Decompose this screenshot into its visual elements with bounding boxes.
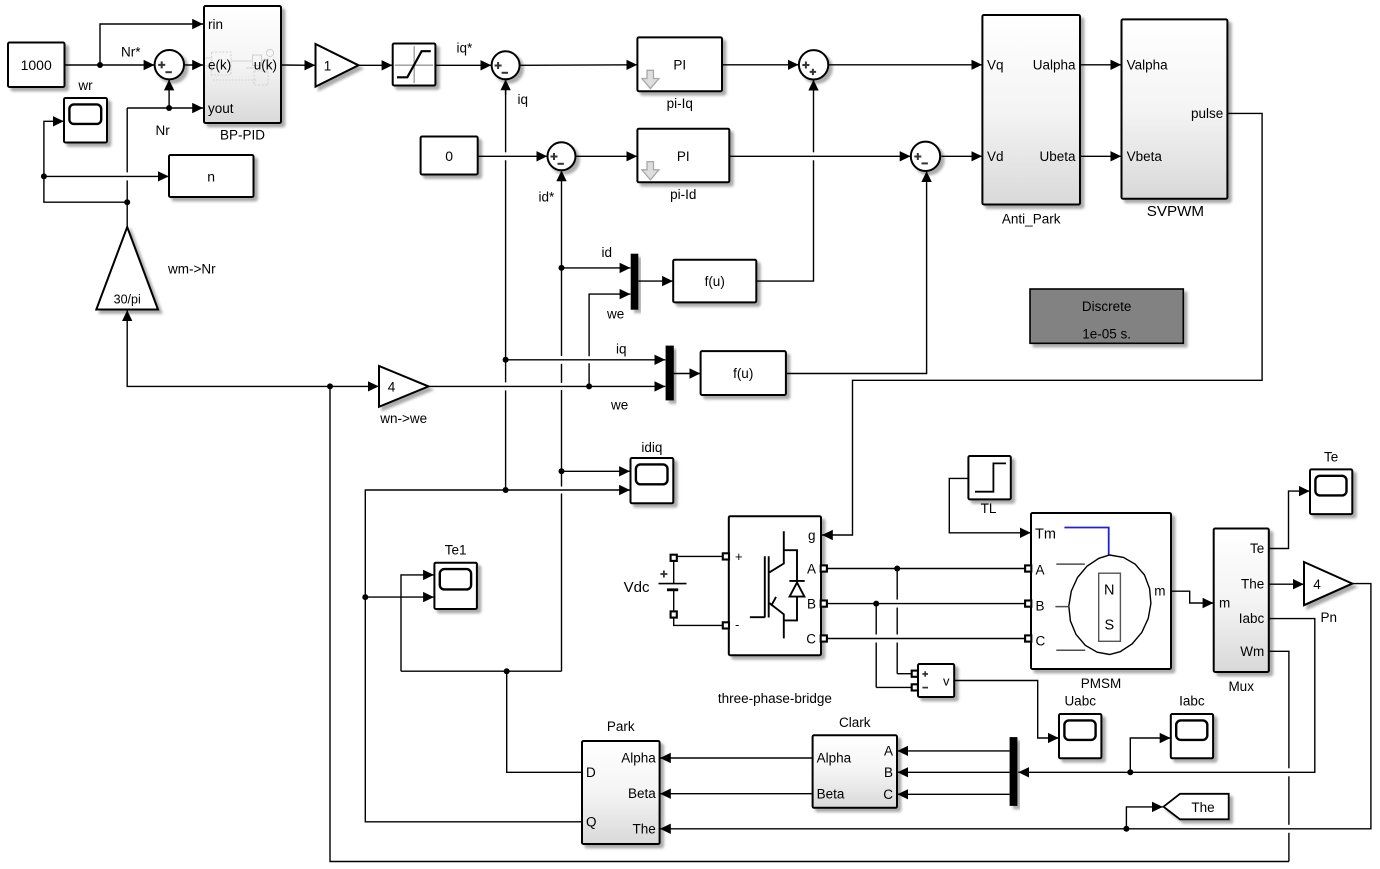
wire PMSM m output to Mux m input (1171, 591, 1213, 603)
svg-text:wr: wr (77, 78, 93, 93)
bridge + port (723, 553, 729, 559)
constant block 1000 (8, 43, 65, 88)
svg-text:S: S (1104, 618, 1114, 634)
svg-text:Uabc: Uabc (1064, 693, 1096, 708)
scope Iabc (1171, 714, 1213, 758)
node phase A junction (894, 566, 900, 572)
Vdc - terminal (671, 611, 677, 617)
svg-text:Vq: Vq (987, 57, 1004, 72)
wire iq branch to Te1 scope input 2 (365, 596, 434, 598)
wire gain Pn output The to Park The input (660, 584, 1371, 829)
wire constant 0 to sum3 (478, 155, 548, 157)
svg-text:PI: PI (677, 149, 690, 164)
svg-text:A: A (1036, 562, 1045, 577)
wire sum2 to pi-Iq (520, 64, 638, 67)
svg-text:Tm: Tm (1035, 527, 1056, 543)
svg-text:iq: iq (518, 92, 529, 107)
wire pi-Id to sum5 (729, 155, 910, 157)
gain block Pn (4) (1304, 562, 1352, 605)
svg-text:Nr*: Nr* (121, 45, 141, 60)
svg-text:0: 0 (445, 148, 453, 164)
node junction wr/n branch (41, 173, 47, 179)
svg-text:C: C (806, 631, 816, 646)
wire phase B branch down to voltmeter - (875, 604, 877, 635)
svg-text:1000: 1000 (21, 57, 52, 73)
svg-text:The: The (633, 821, 656, 836)
wire BP-PID u(k) to gain 1 (281, 64, 315, 66)
wire 1000 to sum1 (65, 64, 155, 66)
wire junction to gain wn->we input (330, 385, 379, 387)
function block f(u) lower (701, 351, 786, 395)
bridge B port (821, 601, 827, 607)
display block n (169, 155, 254, 197)
wire 30/pi output Nr riser to BP-PID yout (126, 180, 128, 227)
svg-text:Pn: Pn (1321, 610, 1338, 625)
wire Wm feedback: Mux Wm output, bottom bus, to 30/pi and wn->we (1269, 651, 1289, 768)
svg-text:Discrete: Discrete (1082, 299, 1132, 314)
wire pi-Iq to sum4 (722, 64, 799, 66)
constant block 0 (421, 137, 478, 175)
subsystem Clark transform (813, 735, 897, 808)
sum junction S4 (Vq = PIq + comp) (799, 50, 828, 79)
battery symbol (673, 561, 675, 584)
scope idiq (631, 458, 674, 503)
svg-text:Ualpha: Ualpha (1033, 57, 1076, 72)
wire we branch to mux1 input 2 (588, 363, 590, 386)
svg-text:Alpha: Alpha (621, 751, 656, 766)
scope Te1 (434, 563, 477, 609)
svg-text:A: A (807, 561, 816, 576)
wire SVPWM pulse to bridge gate g (822, 113, 1262, 535)
mux demux block (Te,The,Iabc,Wm) (1214, 529, 1269, 673)
svg-text:-: - (735, 617, 739, 632)
subsystem SVPWM (1122, 19, 1228, 198)
sum junction S1 (Nr* minus Nr) (155, 50, 184, 79)
v + port (912, 671, 918, 677)
svg-text:C: C (1036, 633, 1046, 648)
scope Te (1310, 469, 1352, 514)
svg-text:+: + (735, 549, 743, 564)
svg-text:30/pi: 30/pi (114, 292, 141, 306)
node id junction to mux1 (559, 265, 565, 271)
wire gain 1 to saturation (359, 64, 393, 66)
svg-text:BP-PID: BP-PID (220, 127, 265, 142)
svg-text:4: 4 (388, 380, 396, 395)
svg-text:Park: Park (607, 719, 635, 734)
bridge A port (821, 565, 827, 571)
wire mux2 output to f(u) lower (674, 373, 701, 375)
svg-text:pi-Id: pi-Id (670, 187, 696, 202)
svg-text:id*: id* (539, 189, 556, 204)
wire Mux The output to gain Pn (1269, 583, 1304, 585)
svg-text:wm->Nr: wm->Nr (167, 261, 216, 276)
discrete solver info block (1030, 289, 1183, 343)
PMSM magnet N/S (1099, 573, 1121, 641)
svg-text:n: n (207, 168, 215, 184)
wire Mux Te output to Te scope (1269, 491, 1310, 548)
svg-text:B: B (807, 597, 816, 612)
wire demux to Clark B (897, 771, 1009, 773)
svg-text:A: A (884, 743, 893, 758)
svg-text:Beta: Beta (817, 786, 845, 801)
bridge - port (723, 622, 729, 628)
PMSM rotor ellipse (1069, 555, 1151, 655)
wire Park D output to id node (507, 671, 582, 772)
sum junction S5 (Vd = PId - comp) (911, 142, 940, 171)
svg-text:pi-Iq: pi-Iq (667, 96, 693, 111)
node Nr junction at yout (166, 105, 172, 111)
wire f(u) upper output to sum4 lower input (756, 160, 813, 281)
svg-text:Vdc: Vdc (624, 579, 650, 596)
svg-text:N: N (1104, 583, 1114, 599)
svg-text:Q: Q (586, 815, 597, 830)
PMSM winding stubs (1055, 564, 1085, 650)
subsystem pi-Iq (637, 37, 722, 91)
svg-text:Iabc: Iabc (1179, 693, 1205, 708)
wire Anti_Park Ubeta to SVPWM Vbeta (1080, 155, 1121, 157)
wire id node riser to Te1 scope input 1 (401, 575, 434, 671)
svg-text:D: D (586, 765, 596, 780)
PMSM Tm blue wire (1064, 528, 1108, 555)
PMSM A port (1025, 565, 1031, 571)
wire bridge phase C to PMSM C (821, 638, 1025, 640)
svg-text:TL: TL (981, 501, 997, 516)
wire Anti_Park Ualpha to SVPWM Valpha (1080, 64, 1121, 66)
subsystem Anti_Park (982, 15, 1080, 205)
svg-text:we: we (610, 397, 628, 412)
subsystem BP-PID (204, 6, 281, 123)
gain block 1 (316, 44, 359, 87)
node we junction to mux1 (586, 383, 592, 389)
gain block 4 (wn to we) (379, 366, 429, 407)
wire voltmeter v output to Uabc scope (954, 681, 1058, 739)
node id junction at Park D (504, 668, 510, 674)
wire bridge phase A to PMSM A (821, 568, 1025, 570)
svg-text:idiq: idiq (641, 440, 662, 455)
svg-text:Clark: Clark (839, 715, 871, 730)
svg-text:Beta: Beta (628, 786, 656, 801)
wire demux to Clark A (897, 750, 1009, 752)
node iq junction to mux2 (503, 357, 509, 363)
saturation block (393, 44, 436, 86)
mux M1 (id,we) (631, 254, 639, 310)
sum junction S2 (iq* minus iq) (492, 51, 520, 79)
wire f(u) lower output to sum5 lower input (786, 171, 927, 373)
mux M2 (iq,we) (666, 346, 674, 401)
wire id to mux1 input 1 (562, 267, 631, 269)
wire The branch to goto tag (1126, 807, 1162, 829)
svg-text:e(k): e(k) (208, 58, 231, 73)
node phase B junction (873, 601, 879, 607)
node iq junction at idiq line (503, 487, 509, 493)
svg-text:The: The (1191, 800, 1214, 815)
wire sum5 to Anti_Park Vd (941, 155, 982, 157)
wire id node to idiq scope input 1 (562, 470, 630, 472)
svg-text:Wm: Wm (1240, 644, 1264, 659)
svg-text:B: B (884, 765, 893, 780)
subsystem pi-Id (637, 129, 729, 183)
svg-text:Te1: Te1 (445, 543, 467, 558)
PMSM machine block (1031, 513, 1171, 669)
wire iq to mux2 input 1 (506, 359, 666, 361)
svg-text:we: we (606, 306, 624, 321)
wire id feedback riser (node id) (561, 171, 563, 357)
sum junction S3 (id* minus id) (548, 142, 576, 170)
wire saturation to sum2, signal iq* (435, 64, 491, 66)
wire Clark Beta to Park Beta (660, 793, 813, 795)
svg-text:Vbeta: Vbeta (1127, 149, 1163, 164)
voltage measurement block v (918, 664, 954, 697)
wire Mux Iabc output down to demux (1018, 619, 1315, 773)
svg-text:C: C (883, 787, 893, 802)
svg-text:B: B (1036, 598, 1045, 613)
svg-text:f(u): f(u) (733, 366, 753, 381)
PMSM B port (1025, 601, 1031, 607)
node we junction at wn->we (327, 383, 333, 389)
gain block 30/pi (wm to Nr) (96, 227, 158, 310)
svg-text:1e-05 s.: 1e-05 s. (1082, 326, 1131, 341)
svg-text:v: v (943, 673, 950, 688)
wire bridge phase B to PMSM B (821, 603, 1025, 605)
wire Iabc branch up to Iabc scope (1130, 738, 1170, 772)
wire sum1 to BP-PID e(k) (184, 64, 203, 66)
goto tag The (1164, 794, 1229, 820)
node Nr junction above 30/pi (124, 199, 130, 205)
svg-text:1: 1 (324, 58, 332, 73)
svg-text:u(k): u(k) (254, 58, 277, 73)
svg-text:iq*: iq* (457, 40, 474, 55)
wire demux to Clark C (897, 793, 1009, 795)
svg-text:iq: iq (616, 341, 627, 356)
svg-text:The: The (1241, 577, 1264, 592)
svg-text:Valpha: Valpha (1127, 57, 1169, 72)
svg-text:id: id (602, 245, 613, 260)
svg-text:wn->we: wn->we (379, 411, 427, 426)
node id junction to idiq (559, 468, 565, 474)
wire Nr branch to wr scope and n display (44, 176, 127, 202)
wire Vdc + terminal to bridge + (676, 555, 723, 557)
wire rin branch: node Nr* junction up to BP-PID rin (100, 24, 203, 65)
svg-text:Te: Te (1324, 450, 1338, 465)
svg-text:Mux: Mux (1228, 679, 1254, 694)
Vdc + terminal (671, 555, 677, 561)
wire we line: gain wn->we output to mux2 input 2 (429, 385, 666, 387)
wire sum3 to pi-Id (576, 155, 638, 157)
svg-text:rin: rin (208, 17, 223, 32)
scope wr (64, 98, 107, 143)
function block f(u) upper (673, 260, 756, 303)
svg-text:Anti_Park: Anti_Park (1002, 211, 1061, 226)
node Iabc junction to scope (1127, 769, 1133, 775)
svg-text:g: g (808, 528, 816, 543)
wire Vdc - terminal to bridge - (674, 618, 724, 626)
scope Uabc (1059, 714, 1101, 758)
wire mux1 output to f(u) upper (638, 280, 673, 282)
svg-text:Alpha: Alpha (817, 751, 852, 766)
svg-text:Ubeta: Ubeta (1039, 149, 1076, 164)
node The junction to goto tag (1123, 826, 1129, 832)
wire Park Q output to iq node, to idiq scope input 2 (365, 490, 630, 822)
wire phase A branch down to voltmeter + (896, 569, 898, 600)
svg-text:m: m (1219, 596, 1230, 611)
bridge C port (821, 635, 827, 641)
wire sum4 to Anti_Park Vq (828, 64, 982, 66)
wire Nr branch up to sum1 minus input (168, 80, 170, 108)
node iq junction to Te1 (362, 594, 368, 600)
svg-text:Nr: Nr (156, 123, 171, 138)
subsystem Park transform (582, 741, 660, 844)
demux D1 (Iabc to A,B,C) (1010, 737, 1018, 806)
svg-text:f(u): f(u) (705, 274, 725, 289)
svg-text:4: 4 (1313, 577, 1321, 592)
node Nr* junction (97, 62, 103, 68)
PMSM C port (1025, 635, 1031, 641)
v - port (912, 684, 918, 690)
svg-text:Vd: Vd (987, 149, 1004, 164)
svg-text:Te: Te (1250, 541, 1264, 556)
svg-text:pulse: pulse (1191, 106, 1223, 121)
wire TL step to PMSM Tm (949, 478, 1030, 532)
step block TL (968, 456, 1010, 499)
bridge IGBT icon (750, 531, 805, 638)
wire Clark Alpha to Park Alpha (660, 757, 813, 759)
svg-text:Iabc: Iabc (1239, 611, 1265, 626)
svg-text:PI: PI (673, 58, 686, 73)
svg-text:three-phase-bridge: three-phase-bridge (718, 691, 832, 706)
subsystem three-phase-bridge (729, 516, 821, 655)
svg-text:SVPWM: SVPWM (1147, 203, 1204, 220)
svg-text:PMSM: PMSM (1081, 676, 1122, 691)
svg-text:yout: yout (208, 101, 234, 116)
wire iq feedback riser (node iq) (505, 80, 507, 152)
svg-text:m: m (1154, 584, 1165, 599)
wire id node horizontal segment (401, 670, 562, 672)
